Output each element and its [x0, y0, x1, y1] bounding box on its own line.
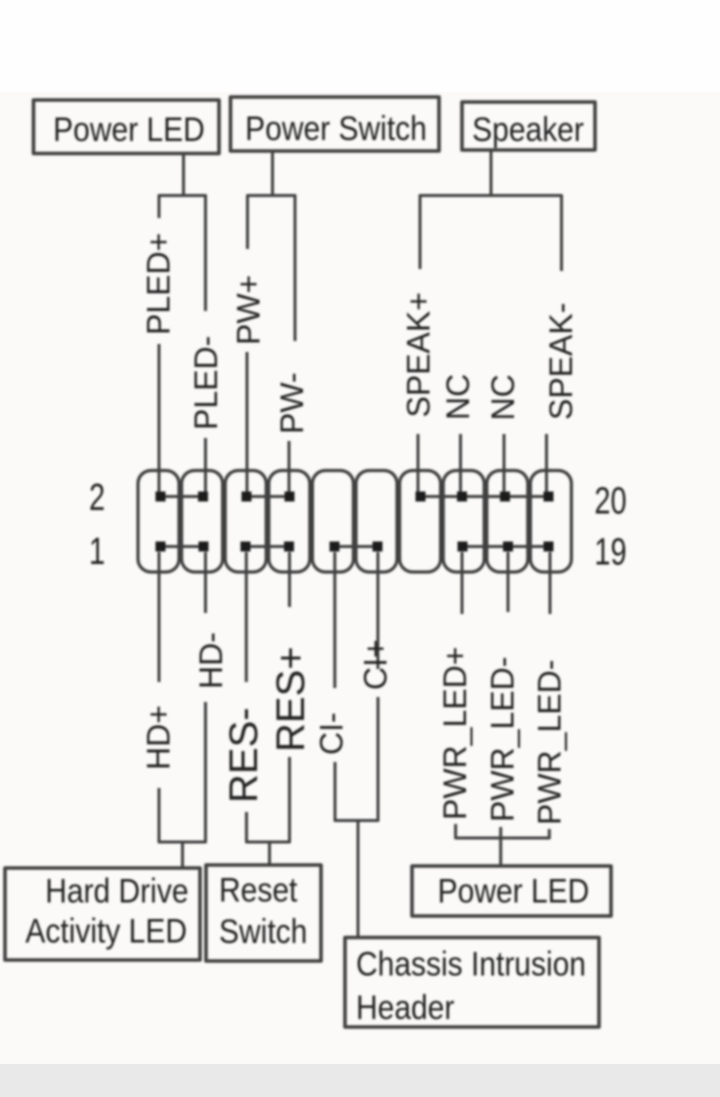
- svg-text:SPEAK+: SPEAK+: [401, 292, 437, 417]
- svg-text:PWR_LED-: PWR_LED-: [485, 657, 521, 822]
- svg-text:Power LED: Power LED: [438, 872, 590, 910]
- svg-text:Switch: Switch: [219, 912, 307, 950]
- svg-text:Speaker: Speaker: [472, 110, 584, 148]
- svg-text:PLED-: PLED-: [188, 336, 224, 430]
- svg-text:Hard Drive: Hard Drive: [45, 872, 188, 910]
- svg-text:CI-: CI-: [314, 712, 350, 755]
- svg-text:HD+: HD+: [141, 705, 177, 770]
- svg-text:Power LED: Power LED: [53, 110, 205, 148]
- svg-text:2: 2: [89, 477, 105, 518]
- svg-text:RES-: RES-: [222, 707, 266, 803]
- svg-text:NC: NC: [485, 374, 521, 420]
- svg-text:RES+: RES+: [269, 646, 313, 752]
- svg-text:PWR_LED+: PWR_LED+: [437, 647, 473, 820]
- svg-text:Reset: Reset: [219, 871, 297, 909]
- svg-text:19: 19: [594, 532, 626, 573]
- svg-text:SPEAK-: SPEAK-: [543, 303, 579, 420]
- svg-text:HD-: HD-: [193, 632, 229, 689]
- svg-text:PLED+: PLED+: [141, 233, 177, 335]
- svg-text:PWR_LED-: PWR_LED-: [532, 660, 568, 825]
- svg-text:PW+: PW+: [231, 275, 267, 345]
- svg-text:Power Switch: Power Switch: [245, 109, 427, 147]
- svg-text:1: 1: [89, 531, 105, 572]
- svg-text:NC: NC: [440, 374, 476, 420]
- svg-text:20: 20: [594, 481, 626, 522]
- svg-text:Activity LED: Activity LED: [25, 912, 187, 950]
- svg-text:PW-: PW-: [274, 372, 310, 434]
- svg-text:CI+: CI+: [358, 639, 394, 690]
- svg-text:Chassis Intrusion: Chassis Intrusion: [356, 945, 586, 983]
- svg-text:Header: Header: [356, 988, 455, 1026]
